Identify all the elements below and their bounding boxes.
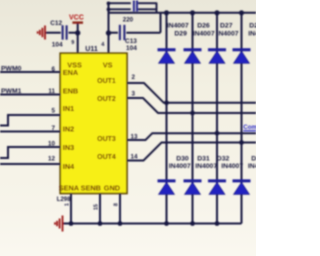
svg-text:IN2: IN2 <box>63 125 74 134</box>
svg-text:IN1: IN1 <box>63 104 74 113</box>
svg-text:GND: GND <box>104 183 120 192</box>
wire column 2 <box>192 13 194 224</box>
capacitor C12 <box>63 25 67 39</box>
svg-text:OUT3: OUT3 <box>97 136 116 143</box>
wire column 4 <box>241 13 243 224</box>
diode D28 <box>233 50 251 64</box>
svg-text:SENB: SENB <box>81 183 101 192</box>
wire C13 branch <box>109 13 161 33</box>
node rail/col2 <box>190 221 195 226</box>
svg-text:8: 8 <box>114 203 120 206</box>
svg-text:13: 13 <box>131 133 139 140</box>
svg-text:6: 6 <box>51 66 55 73</box>
node OUT2/col2 <box>190 111 195 116</box>
ground GND1 (C12 ground symbol) <box>38 26 45 40</box>
svg-text:D28: D28 <box>249 23 256 30</box>
wire OUT3 (pin 13) <box>127 133 256 140</box>
svg-text:OUT2: OUT2 <box>97 96 116 103</box>
svg-text:10: 10 <box>48 141 56 148</box>
wire IN2 (pin 7) <box>0 131 61 133</box>
diode D26 <box>184 50 202 64</box>
svg-text:ENB: ENB <box>63 87 78 96</box>
svg-text:15: 15 <box>94 204 100 210</box>
svg-text:L298: L298 <box>57 197 71 203</box>
svg-text:12: 12 <box>48 156 56 163</box>
svg-text:104: 104 <box>126 45 137 52</box>
diode D27 <box>208 50 226 64</box>
svg-text:VCC: VCC <box>69 15 84 22</box>
svg-text:IN4007: IN4007 <box>195 163 217 170</box>
wire IN3 (pin 10) <box>0 147 61 158</box>
wire ground rail <box>63 223 242 225</box>
svg-text:D30: D30 <box>176 155 189 162</box>
svg-text:OUT4: OUT4 <box>97 154 116 161</box>
svg-text:C12: C12 <box>50 20 62 27</box>
wire column 1 <box>166 13 168 224</box>
svg-text:IN4007: IN4007 <box>217 30 239 37</box>
wire OUT2 (pin 3) <box>127 98 256 113</box>
svg-text:11: 11 <box>48 88 55 95</box>
ground GND2 (rail ground symbol) <box>55 216 63 232</box>
svg-text:IN4007: IN4007 <box>221 163 243 170</box>
wire SENA pin 1 <box>70 194 72 224</box>
node VCC/C12 junction <box>75 30 80 35</box>
diode D29 <box>158 50 176 64</box>
svg-text:U11: U11 <box>85 46 98 53</box>
node VS pin / C13 junction <box>106 30 111 35</box>
wire C12 to VCC node <box>69 32 78 34</box>
svg-text:14: 14 <box>131 153 139 160</box>
node OUT1/col1 <box>164 100 169 105</box>
svg-text:104: 104 <box>52 42 63 49</box>
wire ENA (pin 6) <box>0 71 61 73</box>
capacitor C13 <box>120 25 125 40</box>
svg-text:7: 7 <box>51 125 55 132</box>
node rail/pin8 <box>118 221 123 226</box>
wire SENB pin 15 <box>99 194 101 224</box>
wire GND pin 8 <box>119 194 121 224</box>
wire VCC to pin 9 <box>77 24 79 54</box>
diode D32 <box>208 181 226 195</box>
node rail/col1 <box>164 221 169 226</box>
wire ground to C12 <box>46 32 61 34</box>
node OUT3/col3 <box>215 131 220 136</box>
node rail/pin15 <box>98 221 103 226</box>
svg-text:SENA: SENA <box>59 183 80 192</box>
wire IN1 (pin 5) <box>0 115 61 126</box>
wire column 3 <box>216 13 218 224</box>
svg-text:9: 9 <box>71 40 74 46</box>
wire OUT4 (pin 14) <box>127 143 256 161</box>
svg-text:IN4007: IN4007 <box>169 163 191 170</box>
svg-text:5: 5 <box>51 108 55 115</box>
svg-text:1: 1 <box>65 203 71 206</box>
wire 220 loop top <box>109 3 158 13</box>
node VS rail / col2 <box>190 10 195 15</box>
node VS rail / col3 <box>214 10 219 15</box>
svg-text:D27: D27 <box>220 23 233 30</box>
svg-text:D29: D29 <box>174 30 187 37</box>
diode D33 <box>233 181 251 195</box>
svg-text:IN4007: IN4007 <box>167 23 189 30</box>
svg-text:VS: VS <box>103 60 113 69</box>
svg-text:IN4: IN4 <box>63 162 75 171</box>
svg-text:ENA: ENA <box>63 68 79 77</box>
node VS rail / col1 <box>164 10 169 15</box>
op-amp U11 L298 IC body <box>60 53 127 193</box>
svg-text:D33: D33 <box>251 155 256 162</box>
wire OUT1 (pin 2) <box>127 83 256 103</box>
wire VS pin vertical (pin 4) <box>108 3 110 54</box>
wire IN4 (pin 12) <box>0 163 61 165</box>
wire ENB (pin 11) <box>0 94 61 96</box>
svg-text:Comp: Comp <box>243 124 256 131</box>
svg-text:D32: D32 <box>217 155 230 162</box>
svg-text:3: 3 <box>132 91 136 98</box>
node rail/col3 <box>215 221 220 226</box>
node rail/pin1 <box>69 221 74 226</box>
node VS rail / col4 <box>239 10 244 15</box>
svg-text:IN4007: IN4007 <box>248 30 256 37</box>
diode D30 <box>158 181 176 195</box>
node VS pin loop joints <box>107 2 111 6</box>
node OUT4/col4 <box>239 140 244 145</box>
svg-text:IN3: IN3 <box>63 143 74 152</box>
svg-text:2: 2 <box>132 74 136 81</box>
capacitor 220 <box>134 0 137 11</box>
wire VS rail <box>109 12 257 14</box>
diode D31 <box>184 181 202 195</box>
svg-text:OUT1: OUT1 <box>97 78 116 85</box>
svg-text:D26: D26 <box>197 23 210 30</box>
svg-text:D31: D31 <box>197 155 210 162</box>
svg-text:IN4007: IN4007 <box>193 30 215 37</box>
svg-text:IN4007: IN4007 <box>248 163 256 170</box>
svg-text:220: 220 <box>123 16 134 23</box>
